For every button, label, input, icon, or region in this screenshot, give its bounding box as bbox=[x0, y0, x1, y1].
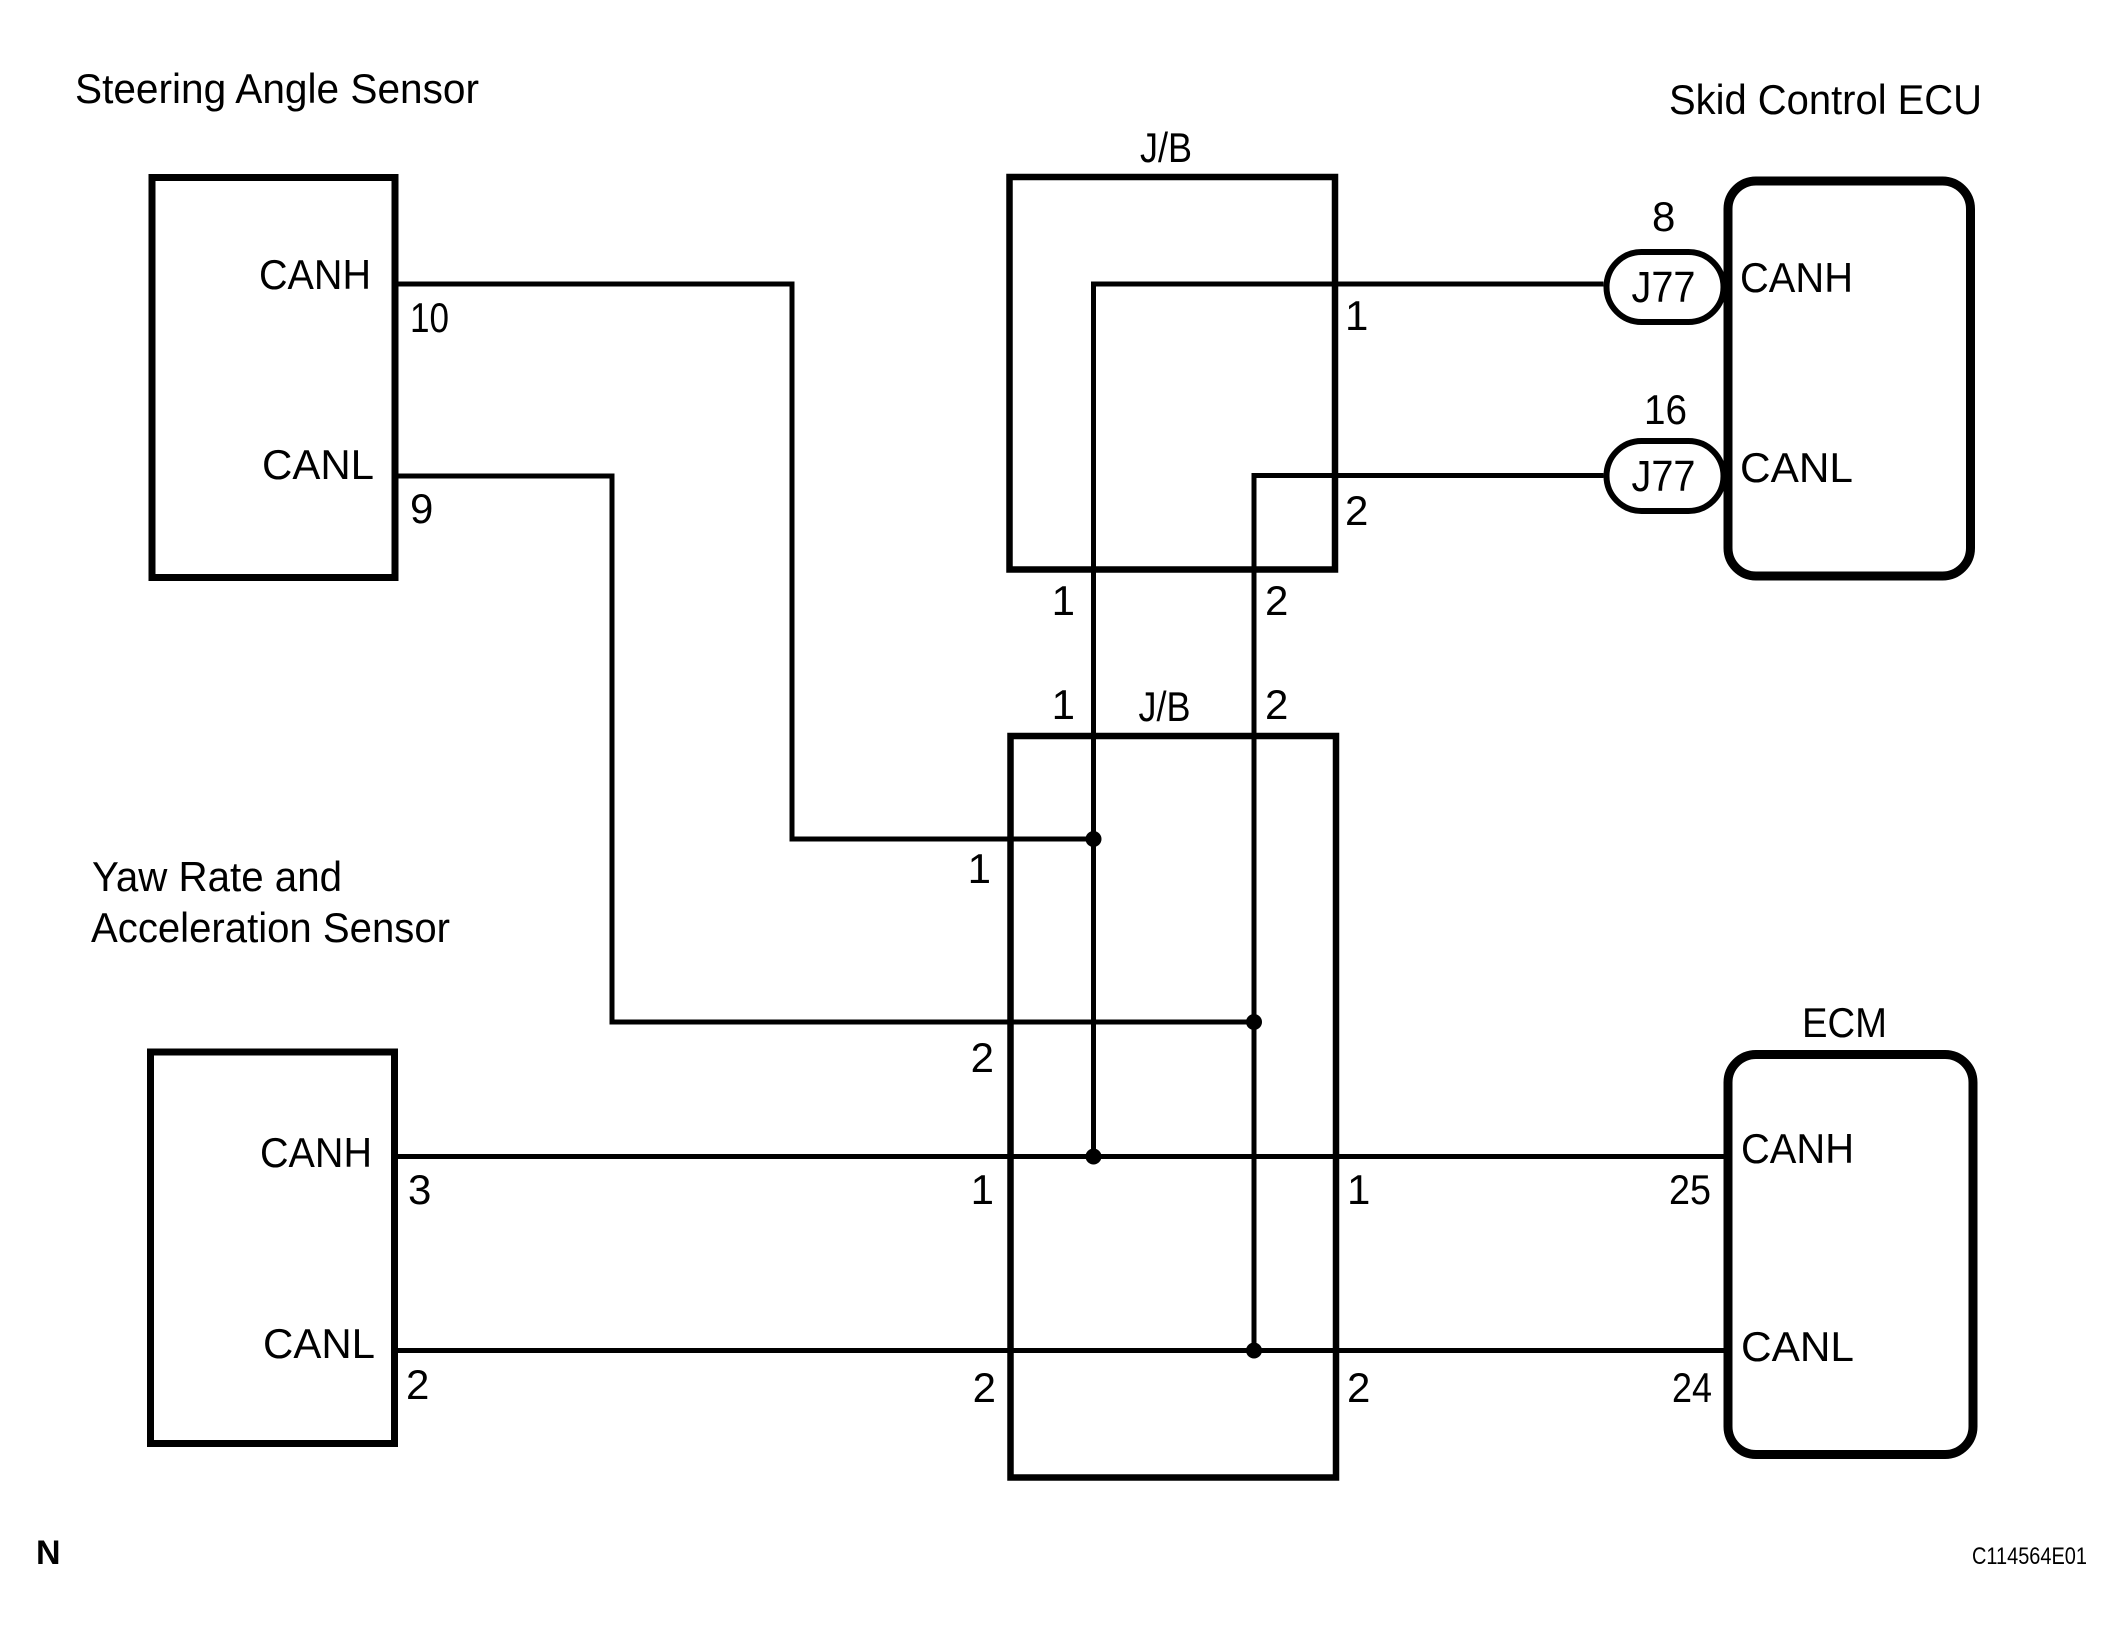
svg-text:3: 3 bbox=[408, 1166, 431, 1213]
svg-text:Skid Control ECU: Skid Control ECU bbox=[1669, 76, 1982, 123]
svg-text:CANH: CANH bbox=[1741, 1125, 1854, 1172]
svg-text:1: 1 bbox=[1052, 681, 1075, 728]
junction dot: steering CANH joins CANH bus bbox=[1086, 831, 1102, 847]
svg-text:25: 25 bbox=[1669, 1166, 1711, 1213]
wire: CANH bus from J77 through J/B down to lower J/B bbox=[1094, 284, 1604, 1157]
svg-text:CANL: CANL bbox=[263, 1320, 375, 1367]
wire: CANL bus from yaw rate sensor to ECM bbox=[398, 1348, 1729, 1353]
svg-text:24: 24 bbox=[1672, 1364, 1712, 1411]
svg-text:9: 9 bbox=[410, 485, 433, 532]
svg-text:Yaw Rate and: Yaw Rate and bbox=[92, 853, 342, 900]
svg-text:10: 10 bbox=[410, 294, 449, 341]
svg-text:CANH: CANH bbox=[1740, 254, 1853, 301]
svg-text:1: 1 bbox=[1052, 577, 1075, 624]
svg-text:CANH: CANH bbox=[260, 1129, 372, 1176]
svg-text:Acceleration Sensor: Acceleration Sensor bbox=[91, 904, 450, 951]
ECM box bbox=[1728, 1055, 1973, 1455]
connector J77 (CANH side) bbox=[1607, 252, 1724, 322]
wire: CANH bus from yaw rate sensor to ECM bbox=[398, 1154, 1729, 1159]
svg-text:CANL: CANL bbox=[1740, 444, 1853, 491]
junction dot: steering CANL joins CANL bus bbox=[1246, 1014, 1262, 1030]
svg-text:CANL: CANL bbox=[262, 441, 374, 488]
connector J77 (CANL side) bbox=[1607, 441, 1724, 511]
steering angle sensor box bbox=[152, 178, 395, 578]
junction block box (middle J/B) bbox=[1011, 736, 1337, 1478]
svg-text:J/B: J/B bbox=[1140, 124, 1192, 171]
junction dot: CANH bus at middle J/B bbox=[1086, 1149, 1102, 1165]
svg-text:1: 1 bbox=[971, 1166, 994, 1213]
svg-text:ECM: ECM bbox=[1802, 999, 1887, 1046]
junction block box (top J/B) bbox=[1010, 177, 1336, 570]
svg-text:1: 1 bbox=[1347, 1166, 1370, 1213]
svg-text:2: 2 bbox=[1265, 577, 1288, 624]
svg-text:Steering Angle Sensor: Steering Angle Sensor bbox=[75, 65, 479, 112]
svg-text:N: N bbox=[36, 1534, 61, 1572]
yaw rate and acceleration sensor box bbox=[151, 1052, 395, 1444]
svg-text:2: 2 bbox=[406, 1361, 429, 1408]
svg-text:CANL: CANL bbox=[1741, 1323, 1854, 1370]
svg-text:8: 8 bbox=[1652, 193, 1675, 240]
svg-text:J/B: J/B bbox=[1139, 683, 1191, 730]
skid control ECU box bbox=[1728, 181, 1971, 576]
svg-text:2: 2 bbox=[971, 1034, 994, 1081]
wire: steering CANL pin 9 to J/B junction node bbox=[399, 476, 1255, 1022]
wire: steering CANH pin 10 to J/B junction node bbox=[399, 284, 1094, 839]
svg-text:J77: J77 bbox=[1632, 263, 1696, 312]
svg-text:2: 2 bbox=[1345, 487, 1368, 534]
svg-text:2: 2 bbox=[1347, 1364, 1370, 1411]
svg-text:C114564E01: C114564E01 bbox=[1972, 1543, 2087, 1570]
svg-text:J77: J77 bbox=[1632, 452, 1696, 501]
svg-text:1: 1 bbox=[1345, 292, 1368, 339]
svg-text:1: 1 bbox=[968, 845, 991, 892]
junction dot: CANL bus at middle J/B bbox=[1246, 1343, 1262, 1359]
svg-text:2: 2 bbox=[1265, 681, 1288, 728]
svg-text:16: 16 bbox=[1644, 386, 1687, 433]
svg-text:CANH: CANH bbox=[259, 251, 371, 298]
wire: CANL bus from J77 through J/B down to lower J/B bbox=[1254, 476, 1604, 1351]
svg-text:2: 2 bbox=[973, 1364, 996, 1411]
